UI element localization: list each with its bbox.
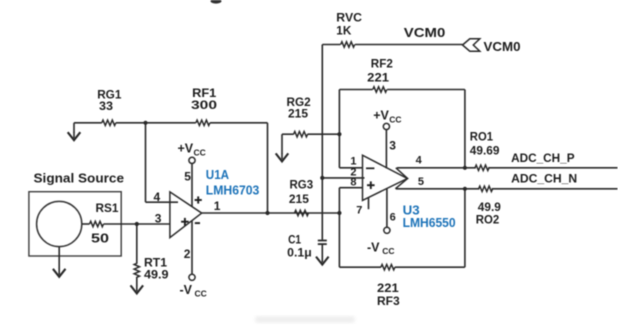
svg-text:LMH6703: LMH6703 <box>206 183 259 198</box>
-Vcc terminal U3 <box>367 189 396 256</box>
svg-text:U1A: U1A <box>206 167 230 182</box>
svg-text:CC: CC <box>194 148 206 158</box>
svg-text:RO2: RO2 <box>476 213 500 227</box>
wire U1A output / node to RG3 <box>202 199 340 215</box>
svg-text:RG3: RG3 <box>290 178 314 192</box>
wire pin 8 to RG3/RF3 node <box>339 188 362 268</box>
ground (signal source) <box>53 247 66 277</box>
resistor RF1 <box>143 86 267 125</box>
ground (C1) <box>316 256 329 264</box>
resistor RVC <box>322 11 462 48</box>
resistor RO1 / output P wire <box>397 129 618 170</box>
ground (RG1 left) <box>68 123 81 140</box>
pin 7 stub <box>356 198 368 217</box>
svg-text:3: 3 <box>155 211 162 225</box>
pin label 1 <box>350 155 356 167</box>
pin label 5 <box>418 176 424 188</box>
diff amp U3 <box>363 155 456 230</box>
pin label 3 <box>155 211 162 225</box>
-Vcc terminal U1A <box>180 221 207 299</box>
svg-text:1K: 1K <box>336 23 351 37</box>
svg-text:CC: CC <box>389 114 401 124</box>
svg-text:CC: CC <box>195 289 207 299</box>
svg-text:LMH6550: LMH6550 <box>403 215 456 230</box>
off-page connector VCM0 <box>463 39 521 54</box>
resistor RS1 <box>82 201 137 245</box>
svg-text:8: 8 <box>350 177 356 189</box>
svg-text:RF2: RF2 <box>371 57 393 71</box>
wire source to op-amp pin 3 <box>135 222 170 226</box>
net label ADC_CH_N <box>511 171 577 185</box>
svg-text:0.1μ: 0.1μ <box>287 245 312 259</box>
svg-text:221: 221 <box>377 281 399 295</box>
wire RG2/RF2 node down to pin 1 <box>339 90 362 168</box>
wire VCM node to pin 2 <box>322 177 364 179</box>
svg-text:1: 1 <box>350 155 356 167</box>
svg-text:+V: +V <box>178 142 194 156</box>
resistor RG1 <box>74 87 146 125</box>
pin label 2 <box>350 167 356 179</box>
resistor RF2 (top feedback) <box>339 57 465 168</box>
svg-text:VCM0: VCM0 <box>484 40 521 54</box>
+Vcc terminal U3 <box>373 109 401 169</box>
svg-text:33: 33 <box>99 99 113 113</box>
resistor RG3 <box>289 178 342 216</box>
ground (RG2 left) <box>276 134 289 161</box>
svg-text:49.69: 49.69 <box>470 144 500 158</box>
svg-text:7: 7 <box>356 205 362 217</box>
pin label 4 <box>416 155 423 167</box>
source VS circle <box>37 201 82 246</box>
svg-text:221: 221 <box>367 71 389 85</box>
svg-text:215: 215 <box>288 106 308 120</box>
pin label 8 <box>350 177 356 189</box>
svg-text:RS1: RS1 <box>96 201 119 215</box>
svg-text:-V: -V <box>367 241 380 255</box>
wire VCM vertical (RVC to C1) <box>320 45 324 240</box>
svg-text:300: 300 <box>191 98 217 112</box>
svg-text:215: 215 <box>289 192 309 206</box>
svg-text:3: 3 <box>389 138 396 152</box>
cropped text artifact top <box>211 0 222 4</box>
svg-text:6: 6 <box>390 212 396 224</box>
svg-text:RO1: RO1 <box>470 129 493 143</box>
svg-text:ADC_CH_P: ADC_CH_P <box>511 151 574 165</box>
svg-text:1: 1 <box>214 199 221 213</box>
resistor RG2 <box>282 95 342 137</box>
cropped caption ghost bottom <box>255 316 355 323</box>
svg-text:49.9: 49.9 <box>144 268 169 282</box>
svg-text:50: 50 <box>91 231 109 245</box>
svg-text:ADC_CH_N: ADC_CH_N <box>511 171 577 185</box>
svg-text:5: 5 <box>418 176 424 188</box>
resistor RO2 / output N wire <box>396 186 618 227</box>
+Vcc terminal U1A <box>178 142 206 207</box>
resistor RF3 (bottom feedback) <box>339 189 465 308</box>
wire RF1 down to output node <box>267 123 269 213</box>
svg-text:4: 4 <box>416 155 423 167</box>
svg-text:CC: CC <box>382 246 394 256</box>
svg-text:Signal Source: Signal Source <box>34 172 125 186</box>
svg-text:-V: -V <box>180 283 193 297</box>
capacitor C1 <box>287 233 327 260</box>
svg-text:4: 4 <box>154 190 161 204</box>
svg-text:+V: +V <box>373 109 389 123</box>
pin label 4 <box>154 190 161 204</box>
svg-text:RF3: RF3 <box>377 294 400 308</box>
ground (RT1) <box>131 285 144 293</box>
net label VCM0 <box>404 26 446 40</box>
net label ADC_CH_P <box>511 151 574 165</box>
wire feedback node to pin 4 <box>146 123 179 202</box>
svg-text:VCM0: VCM0 <box>404 26 446 40</box>
op-amp U1A <box>170 167 259 238</box>
svg-text:2: 2 <box>184 247 191 261</box>
svg-text:5: 5 <box>184 170 191 184</box>
resistor RT1 <box>134 224 169 286</box>
signal source box <box>29 172 124 257</box>
